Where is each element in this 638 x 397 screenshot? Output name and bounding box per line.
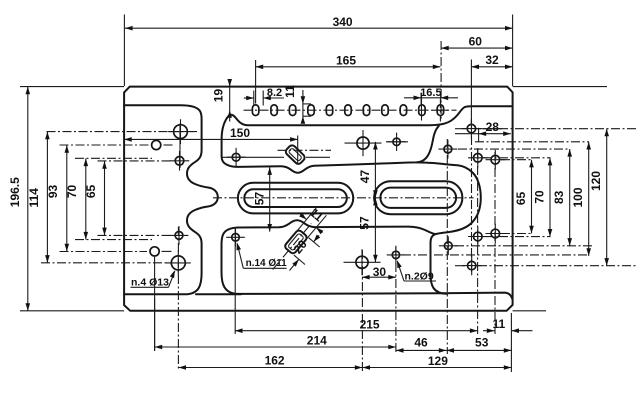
dimension 150 (124, 126, 298, 142)
centerline row P east (501, 233, 532, 235)
hole K right top (462, 119, 481, 138)
dimension 162 (178, 353, 362, 370)
dimension 11 top (283, 85, 305, 124)
svg-text:28: 28 (486, 120, 500, 134)
svg-text:83: 83 (552, 190, 566, 204)
dimension 20 diagonal (290, 235, 321, 271)
label n.4 O13 (131, 270, 175, 288)
small slot row centerline (244, 109, 457, 111)
centerline hole D row (98, 234, 173, 236)
row of 11 small slots (252, 105, 443, 116)
dimension 70 left (65, 159, 88, 240)
dimension 30 (362, 265, 396, 279)
svg-text:11: 11 (283, 85, 297, 98)
upper diagonal slot (284, 144, 306, 166)
hole J right upper (439, 140, 458, 159)
centerline big slots (213, 197, 474, 199)
left elongated slot outer (238, 183, 353, 214)
hole B dash (164, 144, 173, 146)
svg-text:53: 53 (475, 336, 489, 350)
centerline row L east (483, 157, 551, 159)
dimension 70 right (532, 158, 552, 237)
svg-text:70: 70 (532, 190, 546, 204)
hole T lower strip left (n.14 11) (226, 228, 245, 247)
svg-text:57: 57 (252, 192, 266, 206)
hole E dash (162, 250, 172, 252)
dimension 215 (235, 317, 478, 333)
right elongated slot inner (380, 188, 456, 208)
dimension 28 (455, 120, 511, 136)
centerline col T (234, 228, 236, 334)
extension 340 left (123, 15, 125, 87)
hole M right mid-upper outer (486, 150, 506, 170)
label n.2 O9 (397, 260, 436, 282)
svg-text:46: 46 (414, 336, 428, 350)
dimension 120 (589, 129, 609, 266)
bottom edge extension left (20, 310, 124, 312)
centerline row S east (402, 254, 589, 256)
svg-text:100: 100 (571, 187, 585, 207)
slot 10 extension line (421, 93, 423, 121)
centerline hole B row (60, 144, 151, 146)
extension plate right bottom (510, 313, 512, 372)
dimension 65 left (84, 161, 107, 235)
hole S lower middle small (n.2 9) (387, 246, 405, 264)
dimension 60 (441, 34, 512, 50)
hole O right mid-lower (468, 227, 488, 247)
svg-text:120: 120 (589, 171, 603, 191)
centerline hole F row (41, 262, 168, 264)
dimension 53 (446, 336, 511, 353)
right elongated slot outer (374, 181, 462, 214)
left elongated slot inner (244, 189, 346, 207)
dimension 57 left (252, 167, 272, 231)
top edge extension left (20, 86, 124, 88)
centerline col L-O (477, 150, 479, 334)
centerline row M east (501, 159, 532, 161)
centerline hole A row (47, 131, 198, 133)
centerline hole G row (222, 156, 330, 158)
centerline col slot11 top (440, 41, 442, 120)
dimension 19 (211, 79, 232, 122)
dimension 46 (396, 336, 447, 353)
centerline col E (154, 257, 156, 351)
centerline col D-F (177, 227, 179, 371)
svg-text:165: 165 (336, 53, 356, 67)
extension 150 right (297, 136, 299, 165)
centerline 70 lower row (75, 239, 152, 241)
bottom edge extension right (513, 310, 546, 312)
recess boundary around right slot end (C-arc) and bottom right (417, 162, 481, 293)
centerline row I east (386, 141, 589, 143)
svg-text:340: 340 (333, 15, 353, 29)
dimension 165 (256, 53, 441, 69)
svg-text:60: 60 (469, 34, 483, 48)
top edge extension right (513, 86, 607, 88)
extension 28 (478, 128, 480, 142)
dimension 114 (27, 132, 50, 263)
svg-text:30: 30 (373, 265, 387, 279)
centerline hole E row (60, 251, 148, 253)
hole N right lower (439, 236, 458, 255)
extension 340 right (512, 15, 514, 87)
dimension 47 (358, 142, 378, 198)
hole B upper-left small plain (152, 140, 161, 149)
svg-text:65: 65 (84, 185, 98, 199)
hole I upper middle small (387, 133, 405, 151)
hole Q right bottom (462, 256, 481, 275)
dimension 340 (125, 15, 513, 31)
dimension 8.2 (244, 87, 284, 101)
dimension 16.5 (404, 87, 458, 104)
extension col 154.6 bottom (154, 298, 156, 351)
extension 11 ticks (303, 104, 311, 116)
centerline hole C row (98, 160, 173, 162)
label n.14 O11 (237, 243, 288, 270)
lower strip top edge with bump (238, 220, 435, 234)
svg-text:32: 32 (485, 53, 499, 67)
svg-text:19: 19 (211, 89, 225, 103)
svg-text:11: 11 (493, 317, 506, 331)
dimension 83 (552, 149, 572, 246)
centerline row K east (455, 128, 637, 130)
svg-text:196.5: 196.5 (8, 177, 22, 207)
svg-text:70: 70 (65, 185, 79, 199)
centerline col R (361, 250, 363, 371)
centerline col J-N (446, 139, 448, 354)
svg-text:47: 47 (358, 170, 372, 184)
dimension 11 diagonal (296, 205, 326, 239)
centerline row Q east (455, 265, 637, 267)
upper tab hump and top boundary (222, 106, 513, 164)
centerline col S (395, 247, 397, 354)
svg-text:93: 93 (46, 185, 60, 199)
centerline row J east (458, 148, 570, 150)
dimension 65 right (514, 160, 534, 234)
svg-text:215: 215 (360, 317, 380, 331)
hole F lower-left big (n.4 13) (166, 250, 191, 275)
svg-text:16.5: 16.5 (420, 87, 441, 99)
centerline col A-C (179, 124, 181, 169)
extension 32 left (470, 60, 472, 125)
extension 165 left (255, 60, 257, 104)
hole A upper-left big (168, 119, 193, 144)
lower diagonal slot (284, 229, 308, 255)
dimension 93 (46, 145, 69, 251)
dimension 129 (362, 354, 511, 370)
lower strip left end and bottom edge (222, 228, 513, 300)
hole D lower-left small (170, 226, 189, 245)
dimension 11 bottom (483, 317, 533, 333)
centerline row N east (455, 245, 592, 247)
hole R lower middle big (344, 249, 381, 275)
dimension 214 (155, 334, 396, 350)
dimension 32 (471, 53, 512, 69)
svg-text:65: 65 (514, 192, 528, 206)
hole H upper middle big (345, 130, 382, 156)
recess boundary left (steps and wavy neck) (124, 105, 218, 294)
svg-text:214: 214 (307, 334, 327, 348)
dimension 196.5 (8, 87, 30, 311)
svg-text:114: 114 (27, 188, 41, 208)
svg-text:n.4 Ø13: n.4 Ø13 (131, 276, 169, 288)
hole E lower-left small plain (150, 247, 159, 256)
extension 8.2 b (262, 91, 264, 106)
centerline col K-Q (471, 120, 473, 272)
dimension 100 (571, 142, 591, 256)
hole P right mid-lower outer (486, 224, 506, 244)
svg-text:57: 57 (358, 216, 372, 230)
extension 8.2 a (253, 91, 255, 106)
centerline col M-P (494, 152, 496, 334)
dimension 57 right (358, 198, 378, 262)
plate outline (124, 87, 512, 311)
svg-text:162: 162 (265, 353, 285, 367)
upper strip bottom edge with dip (227, 126, 439, 173)
centerline row O east (483, 236, 551, 238)
svg-text:8.2: 8.2 (267, 87, 282, 99)
recess floor line across bottom channel (196, 293, 241, 295)
centerline lower diagonal slot (273, 224, 312, 270)
hole G strip left (227, 148, 246, 167)
centerline upper diagonal slot (278, 149, 332, 151)
hole L right mid-upper (468, 148, 488, 168)
svg-text:n.14 Ø11: n.14 Ø11 (246, 258, 288, 269)
svg-text:129: 129 (428, 354, 448, 368)
svg-text:150: 150 (230, 126, 250, 140)
hole C upper-left small (170, 151, 190, 171)
last small slot crosshair (433, 99, 449, 122)
centerline 70 upper row (75, 157, 152, 159)
